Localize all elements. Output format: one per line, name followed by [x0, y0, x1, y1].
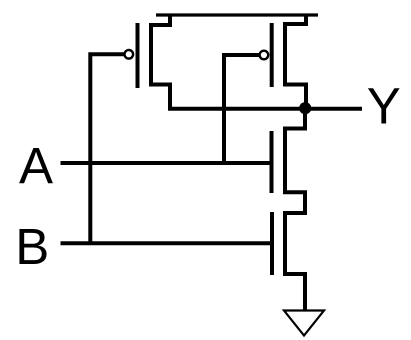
pmos Q2 gate bar	[270, 23, 274, 87]
svg-text:B: B	[15, 218, 49, 275]
nmos Q4 gate bar	[270, 212, 274, 275]
nmos stack channel path (Q3 and Q4 with series link and ground lead)	[285, 109, 305, 310]
svg-text:A: A	[19, 138, 53, 195]
svg-text:Y: Y	[367, 77, 401, 134]
pmos Q1 gate bubble	[125, 50, 134, 59]
wire: Q1 gate to node B vertical	[90, 54, 123, 243]
pmos Q1 channel with drain/source stubs	[151, 14, 170, 109]
pmos Q2 gate bubble	[260, 51, 269, 60]
wire: output net to Y	[168, 107, 362, 111]
ground	[284, 311, 324, 336]
power rail VDD	[156, 13, 318, 16]
nmos Q3 gate bar	[270, 131, 274, 193]
wire: node B line	[61, 241, 273, 245]
junction dot at output node	[299, 102, 311, 114]
wire: node A line	[61, 161, 272, 165]
wire: Q2 gate down to node A	[224, 55, 259, 163]
pmos Q2 channel with drain/source stubs	[285, 14, 306, 109]
pmos Q1 gate bar	[136, 23, 140, 88]
